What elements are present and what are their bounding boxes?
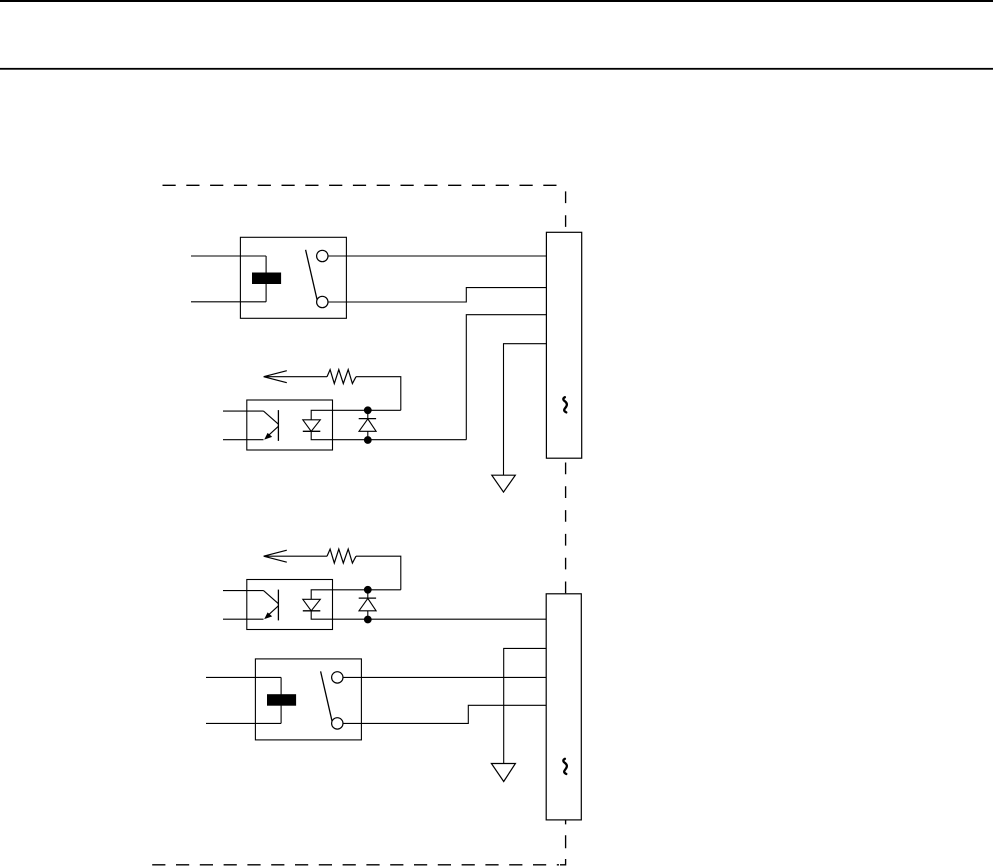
wire U1 input lead top [223, 410, 264, 412]
wire U1 output bottom [333, 439, 467, 441]
relay K1 contact terminal bottom [317, 296, 328, 307]
wire ground tap from connector J2 [504, 648, 547, 763]
dashed boundary right edge segment 3 [560, 820, 566, 865]
wire U2 output top to node C [333, 589, 401, 591]
dashed boundary top edge [163, 184, 560, 186]
node A junction dot [364, 406, 372, 414]
ground [492, 475, 516, 492]
wire K2 coil lead bottom [206, 722, 281, 724]
wire node B riser to connector [466, 315, 546, 440]
wire K2 bottom contact to connector (jog) [343, 705, 546, 723]
resistor R1 feed arrow [264, 371, 327, 383]
wire U2 input lead top [223, 590, 264, 592]
ground [491, 764, 515, 782]
connector J2 [546, 594, 581, 820]
relay K2 switch arm [321, 671, 333, 722]
node C junction dot [364, 586, 372, 594]
relay K1 body [240, 237, 346, 318]
wire U2 output bottom to connector [333, 618, 547, 620]
wire U1 input lead bottom [223, 439, 264, 441]
wire K1 bottom contact to connector (jog) [328, 288, 546, 302]
dashed boundary right edge segment 2 [565, 458, 567, 594]
zener diode Z1 [359, 410, 376, 440]
wire K1 coil lead top [191, 255, 266, 257]
relay K2 contact terminal bottom [332, 718, 343, 729]
wire K2 coil vertical [280, 677, 282, 723]
connector J2 AC marking [563, 759, 567, 774]
resistor R2 [327, 549, 356, 563]
resistor R1 [327, 370, 356, 384]
relay K1 coil [252, 273, 281, 285]
wire K2 top contact to connector [343, 676, 546, 678]
connector J1 [546, 232, 581, 458]
wire K1 coil vertical [265, 256, 267, 302]
wire U2 input lead bottom [223, 618, 264, 620]
wire ground tap from connector J1 [504, 344, 547, 476]
optocoupler U1 body [247, 400, 333, 450]
wire U1 output top to node A [333, 409, 401, 411]
wire K1 top contact to connector [328, 255, 546, 257]
dashed boundary bottom edge [152, 864, 559, 866]
zener diode Z2 [359, 590, 376, 620]
node B junction dot [364, 436, 372, 444]
transistor Q2 (U2 phototransistor) [264, 590, 279, 621]
wire K2 coil lead top [206, 676, 281, 678]
node D junction dot [364, 616, 372, 624]
relay K1 switch arm [306, 250, 318, 301]
diode D1 (U1 LED) [303, 410, 333, 439]
wire R2 to node C [356, 556, 401, 590]
wire K1 coil lead bottom [191, 301, 266, 303]
wire R1 to node A [356, 377, 401, 411]
header rule bottom [0, 68, 993, 70]
relay K2 body [255, 659, 361, 740]
relay K1 contact terminal top [317, 250, 328, 261]
relay K2 contact terminal top [332, 672, 343, 683]
relay K2 coil [267, 694, 296, 706]
connector J1 AC marking [563, 397, 567, 412]
dashed boundary right edge segment 1 [565, 185, 567, 232]
header rule top [0, 0, 993, 2]
resistor R2 feed arrow [264, 550, 327, 562]
diode D2 (U2 LED) [303, 590, 333, 619]
transistor Q1 (U1 phototransistor) [264, 410, 279, 441]
optocoupler U2 body [247, 580, 333, 630]
